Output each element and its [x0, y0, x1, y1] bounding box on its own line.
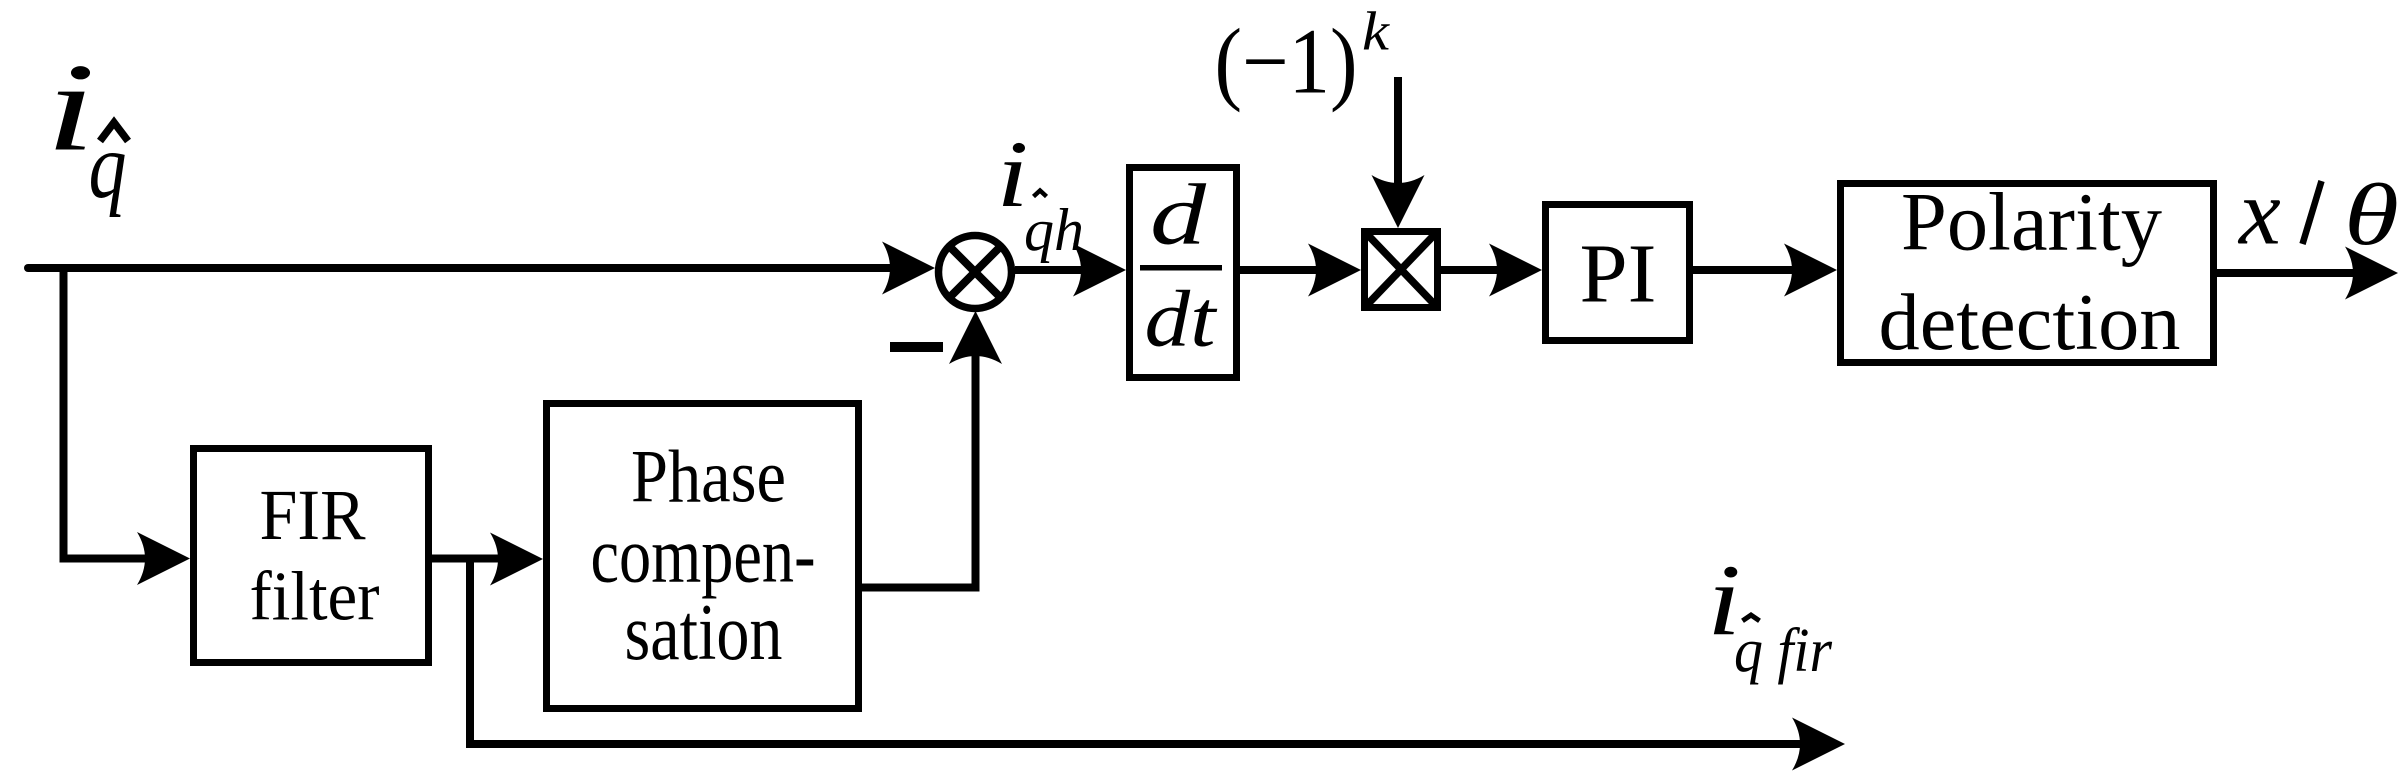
- svg-text:q: q: [89, 115, 127, 218]
- svg-text:q fir: q fir: [1734, 617, 1833, 685]
- svg-text:qh: qh: [1024, 197, 1084, 263]
- svg-text:PI: PI: [1580, 228, 1657, 321]
- svg-text:FIR: FIR: [260, 475, 366, 555]
- svg-text:sation: sation: [625, 589, 783, 677]
- svg-text:(−1): (−1): [1215, 11, 1358, 114]
- svg-text:x: x: [2237, 161, 2281, 265]
- svg-text:θ: θ: [2344, 167, 2399, 264]
- svg-text:dt: dt: [1145, 276, 1218, 364]
- svg-text:k: k: [1362, 1, 1391, 62]
- svg-text:filter: filter: [250, 559, 380, 636]
- svg-text:Phase: Phase: [631, 436, 786, 519]
- svg-text:Polarity: Polarity: [1901, 176, 2162, 268]
- svg-text:detection: detection: [1879, 279, 2181, 367]
- svg-text:compen-: compen-: [591, 513, 816, 600]
- svg-text:d: d: [1150, 166, 1207, 263]
